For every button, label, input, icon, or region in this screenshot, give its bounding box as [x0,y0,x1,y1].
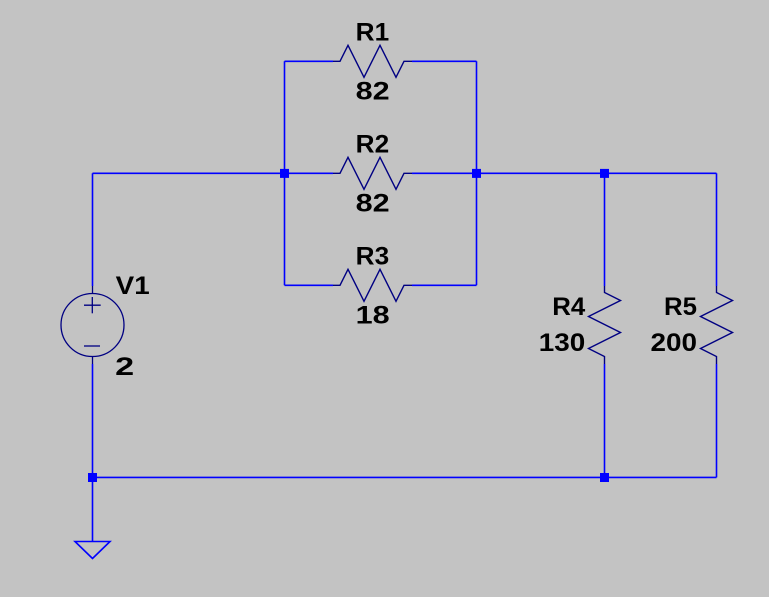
resistor R4 (130 ohm, vertical) [589,286,621,364]
svg-text:R2: R2 [356,131,390,159]
svg-text:R1: R1 [356,19,390,47]
wire: R5 top vertical [716,173,718,286]
resistor R2 (82 ohm, horizontal, middle row) [333,157,412,189]
wire: R5 bottom vertical [716,364,718,477]
svg-text:R5: R5 [664,293,697,321]
junction node at left rail / mid bus [280,169,289,178]
wire: R4 bottom vertical [604,364,606,477]
wire: R1 row left lead [285,60,334,62]
wire: left rail vertical x=284.5 from R1 row to R3 row [284,61,286,285]
resistor R1 (82 ohm, horizontal, top row) [333,45,412,77]
svg-text:82: 82 [356,77,390,105]
wire: R3 row right lead [412,284,477,286]
wire: ground stub below bus [92,477,94,541]
wire: left vertical from mid bus down to V1 [92,173,94,286]
svg-text:130: 130 [539,329,586,357]
resistor R3 (18 ohm, horizontal, bottom row of parallel bank) [333,269,412,301]
wire: V1 bottom vertical to ground bus [92,364,94,477]
svg-text:18: 18 [356,301,390,329]
wire: R1 row right lead [412,60,477,62]
wire: R3 row left lead [285,284,334,286]
svg-text:82: 82 [356,189,390,217]
voltage source V1 (2 V) [61,286,124,364]
junction node at right rail / mid bus [472,169,481,178]
svg-text:R4: R4 [552,293,585,321]
svg-text:2: 2 [115,353,134,381]
wire: mid bus right segment to R5 corner [477,172,717,174]
svg-text:V1: V1 [116,272,150,300]
junction node at R4 bottom / bottom bus [600,473,609,482]
ground symbol [75,542,110,559]
svg-text:R3: R3 [356,243,390,271]
wire: R4 top vertical [604,173,606,286]
wire: R2 row left lead [285,172,334,174]
wire: bottom ground bus [93,476,717,478]
wire: R2 row right lead [412,172,477,174]
wire: mid bus left segment V1 top to left rail [93,172,285,174]
resistor R5 (200 ohm, vertical) [701,286,733,364]
junction node at R4 top / mid bus [600,169,609,178]
junction node at V1 / bottom bus / ground [88,473,97,482]
wire: right rail vertical x=476.5 from R1 row to R3 row [476,61,478,285]
svg-text:200: 200 [651,329,698,357]
